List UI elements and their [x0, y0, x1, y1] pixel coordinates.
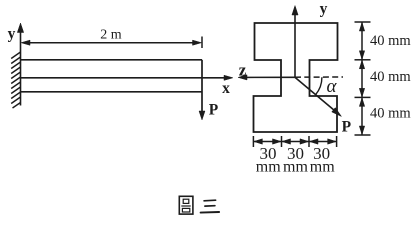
angle arc — [316, 77, 322, 94]
beam right edge and load P arrow — [199, 60, 205, 120]
svg-text:40 mm: 40 mm — [370, 69, 411, 85]
I-shaped cross-section outline — [254, 23, 338, 132]
horizontal dimension line (bottom) — [253, 136, 336, 147]
svg-text:mm: mm — [310, 158, 335, 175]
svg-text:α: α — [327, 76, 338, 97]
svg-text:40 mm: 40 mm — [370, 106, 411, 122]
svg-text:z: z — [239, 61, 247, 80]
inclined load P line — [295, 77, 342, 116]
y-axis (left figure) — [17, 23, 23, 106]
svg-text:P: P — [209, 101, 219, 118]
svg-text:2 m: 2 m — [100, 28, 122, 43]
beam centerline / x-axis — [21, 75, 233, 80]
svg-text:P: P — [342, 119, 352, 136]
fixed wall hatching — [11, 52, 20, 108]
svg-text:x: x — [222, 80, 230, 97]
vertical dimension line (right) — [355, 22, 371, 135]
caption glyph tu (figure) — [179, 196, 193, 214]
dashed reference line — [295, 76, 343, 78]
beam bottom edge — [21, 91, 202, 93]
svg-text:mm: mm — [283, 158, 308, 175]
caption glyph san (three) — [201, 200, 220, 212]
beam top edge — [21, 59, 202, 61]
svg-text:mm: mm — [256, 158, 281, 175]
extension tick at right of dimension — [201, 37, 203, 49]
y-axis (section) — [292, 6, 298, 78]
svg-text:40 mm: 40 mm — [370, 33, 411, 49]
z-axis — [238, 75, 295, 80]
svg-text:y: y — [8, 26, 16, 43]
svg-text:y: y — [320, 1, 328, 18]
dimension line 2 m — [21, 40, 202, 45]
